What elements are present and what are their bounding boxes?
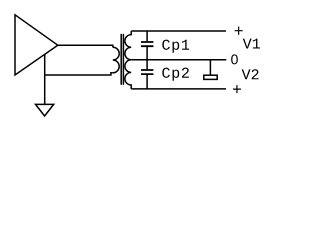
wire (secondary top to V1+) — [131, 30, 226, 32]
wire (amp output to primary top) — [58, 45, 113, 47]
label Cp1 — [162, 40, 189, 53]
capacitor Cp2 leads — [146, 60, 148, 89]
wire (primary bottom to ground net) — [45, 73, 113, 75]
capacitor Cp2 plates — [141, 70, 153, 74]
inductor L2 (transformer secondary winding) — [125, 31, 131, 89]
ground 0V (signal ground box on center tap) — [209, 60, 211, 75]
wire (secondary center tap, node 0) — [131, 59, 226, 61]
wire (triangle lower edge tap down to ground) — [44, 54, 46, 104]
op-amp U1 (buffer triangle) — [15, 15, 58, 75]
label plus V2 — [233, 85, 241, 93]
transformer core — [121, 34, 123, 85]
capacitor Cp1 plates — [141, 42, 153, 46]
label V2 — [242, 69, 259, 79]
inductor L1 (transformer primary winding) — [113, 47, 119, 73]
label Cp2 — [162, 68, 189, 81]
wire (secondary bottom to V2+) — [131, 88, 226, 90]
label plus V1 — [235, 27, 243, 35]
ground (triangle ground symbol) — [36, 104, 54, 116]
label node 0 — [231, 54, 238, 64]
capacitor Cp1 leads — [146, 31, 148, 60]
label V1 — [243, 39, 260, 49]
